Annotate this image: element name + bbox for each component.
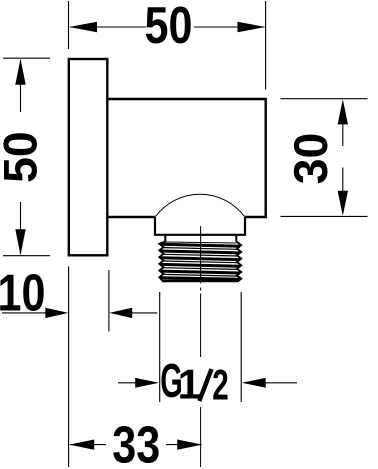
left dim 50: dimension line [20,60,22,254]
bottom-left dim 10: left long extension line (wall face) [68,266,70,467]
thread dim G1/2: right extension line [240,292,242,402]
bottom-left dim 10: left arrowhead [45,308,68,318]
right dim 30: down arrowhead [338,191,348,216]
bottom dim 33: dimension line [70,444,202,446]
thread crest thin line top [166,242,237,243]
thread dim G1/2: left arrowhead [135,378,159,388]
thread outline (zigzag profile) [159,242,241,281]
thread dim G1/2: left leader line [118,382,140,384]
svg-text:50: 50 [145,0,193,55]
wall flange (side view rectangle) [69,59,108,255]
top dim 50: left extension line [68,1,70,49]
right dim 30: up arrowhead [338,99,348,124]
bottom-left dim 10: right leader line [131,312,157,314]
thread ridge lines (thick) [161,244,240,279]
left dim 50: bottom extension line [3,255,50,257]
bottom dim 33: right arrowhead [177,440,202,450]
thread crest lines (thin) [164,248,238,277]
right dim 30: bottom extension line [281,215,368,217]
bottom-left dim 10: right arrowhead [109,308,132,318]
thread dim G1/2: right leader line [262,382,297,384]
thread dim G1/2: label slash [199,369,211,401]
svg-text:50: 50 [0,131,46,183]
svg-text:33: 33 [112,416,160,469]
svg-text:30: 30 [284,133,337,185]
bottom dim 33: left arrowhead [69,440,94,450]
neck (unthreaded shank) [165,236,236,242]
elbow body outline [107,99,265,217]
top dim 50: dimension line [70,26,265,28]
svg-text:1: 1 [178,361,201,408]
left dim 50: up arrowhead [15,59,25,85]
centerline (axis) [200,226,202,467]
collar below body [154,217,246,235]
top dim 50: left arrowhead [69,22,97,32]
svg-text:10: 10 [0,264,46,322]
top dim 50: right arrowhead [238,22,266,32]
bottom-left dim 10: left leader line [2,312,46,314]
top dim 50: right extension line [265,1,267,90]
thread dim G1/2: left extension line [159,292,161,402]
bottom-left dim 10: right extension line [108,270,110,332]
left dim 50: down arrowhead [15,229,25,255]
dome transition arc [156,194,245,216]
thread bottom edge (thick) [162,280,239,283]
left dim 50: top extension line [3,57,50,59]
right dim 30: top extension line [281,98,368,100]
svg-text:2: 2 [212,362,229,410]
thread dim G1/2: right arrowhead [242,378,266,388]
right dim 30: dimension line [342,123,344,192]
